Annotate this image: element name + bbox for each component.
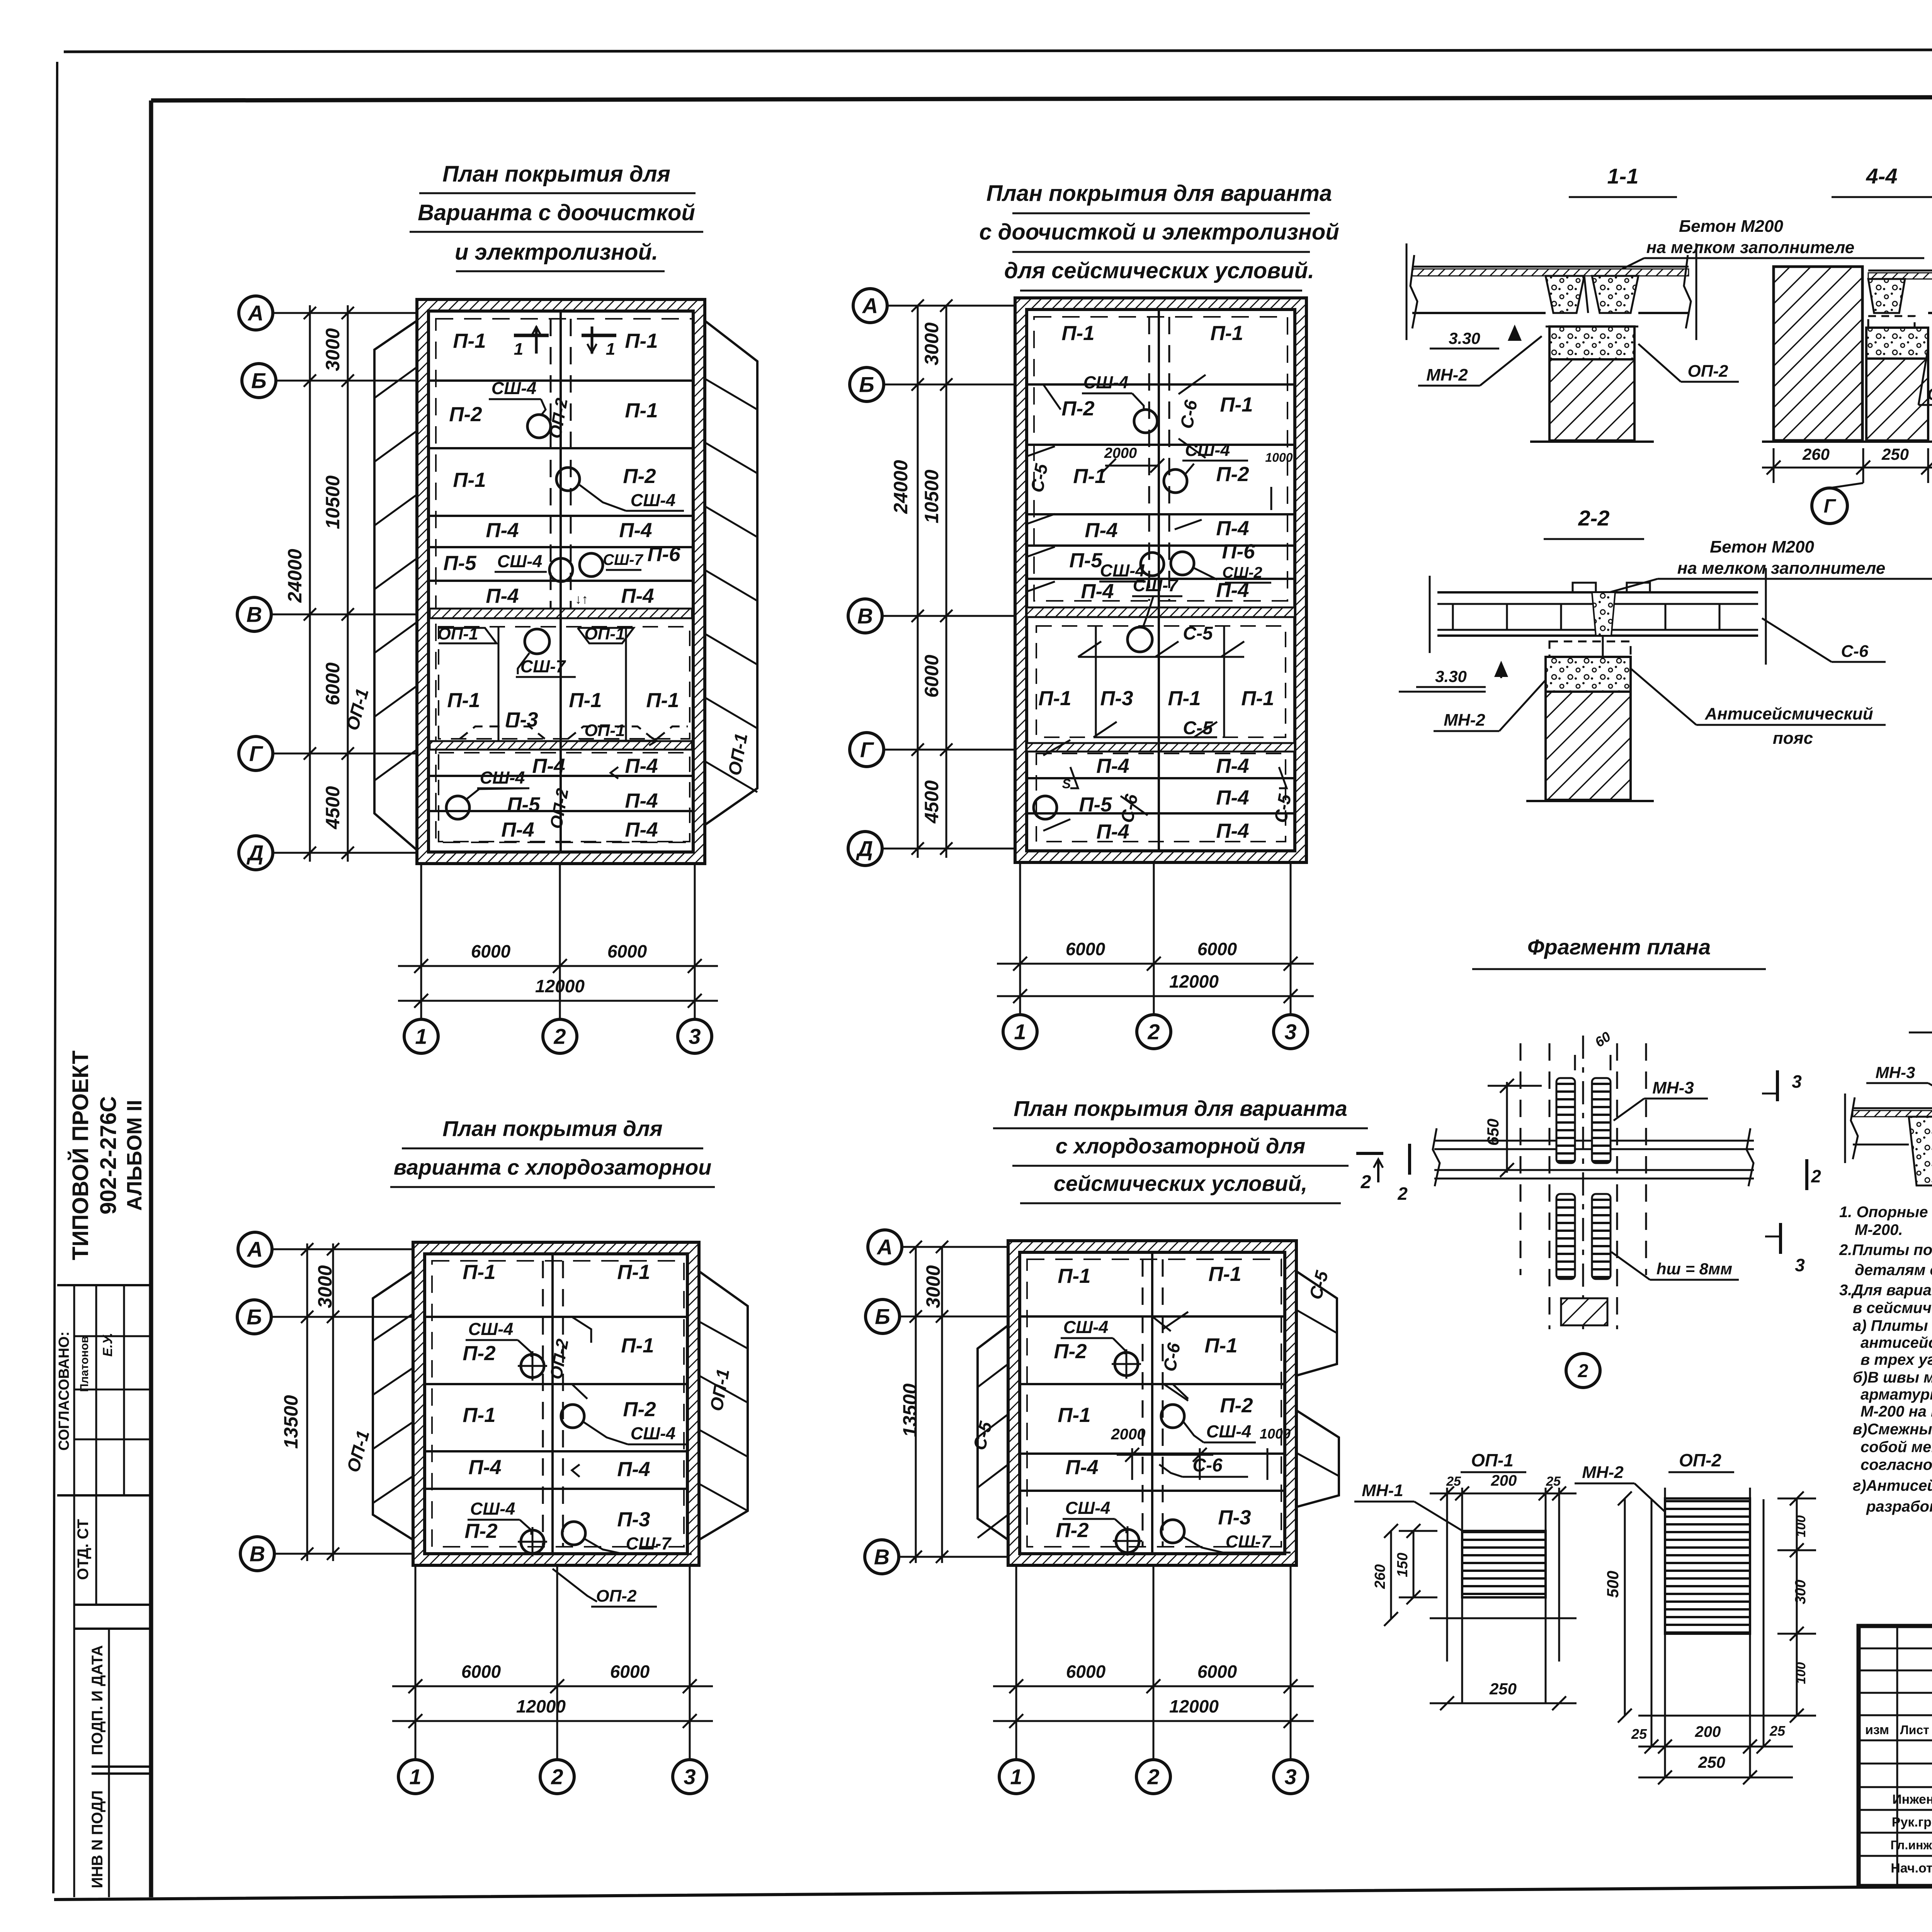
svg-text:200: 200 — [1491, 1472, 1517, 1489]
svg-text:П-1: П-1 — [1073, 465, 1106, 488]
svg-text:12000: 12000 — [1169, 1696, 1219, 1716]
axis А line — [900, 1246, 1008, 1248]
svg-text:собой металлическими накладкам: собой металлическими накладками, — [1861, 1439, 1932, 1456]
svg-text:СШ-4: СШ-4 — [1185, 440, 1230, 460]
plan 3 inner dashed outline — [432, 1261, 684, 1547]
title block outer frame — [1859, 1626, 1932, 1886]
svg-text:МН-2: МН-2 — [1582, 1463, 1624, 1482]
bottom dim line 12000 — [398, 1000, 718, 1002]
svg-text:с хлордозаторной для: с хлордозаторной для — [1056, 1134, 1306, 1158]
plan 1 band at axis V — [430, 609, 692, 618]
svg-text:300: 300 — [1793, 1580, 1809, 1604]
svg-text:на мелком заполнителе: на мелком заполнителе — [1677, 559, 1885, 578]
svg-text:П-3: П-3 — [617, 1508, 650, 1531]
svg-text:ИНВ N ПОДЛ: ИНВ N ПОДЛ — [89, 1790, 106, 1888]
svg-text:Бетон М200: Бетон М200 — [1679, 217, 1783, 236]
dimension ticks — [304, 307, 316, 319]
svg-text:П-1: П-1 — [463, 1261, 495, 1284]
section 2-2 support pad — [1546, 657, 1631, 692]
axis А circle — [238, 1232, 272, 1266]
plan 3 wall band — [413, 1242, 699, 1565]
svg-text:ОП-1: ОП-1 — [438, 624, 478, 643]
axis А line — [886, 305, 1015, 307]
plan 1 V-G cell verticals — [498, 626, 500, 741]
fragment vertical dashed plate edges — [1520, 1043, 1522, 1275]
axis Б circle — [850, 367, 884, 401]
svg-text:арматурные сетки и заделать бе: арматурные сетки и заделать бетоном — [1861, 1386, 1932, 1403]
svg-text:1: 1 — [1010, 1765, 1022, 1789]
section 4-4 support pad OP-1 — [1866, 328, 1928, 359]
section 3-3 joint ribs — [1909, 1117, 1932, 1185]
svg-text:С-6: С-6 — [1192, 1455, 1223, 1476]
section 4-4 wall — [1774, 267, 1862, 440]
svg-text:П-1: П-1 — [1038, 687, 1071, 710]
svg-text:П-1: П-1 — [625, 399, 658, 422]
axis 1 circle bottom — [999, 1760, 1033, 1794]
svg-text:3000: 3000 — [314, 1265, 336, 1308]
svg-text:П-1: П-1 — [646, 689, 679, 712]
svg-text:П-4: П-4 — [1216, 579, 1249, 602]
plan 1 dashed pad trapezoids — [460, 726, 545, 739]
fragment section marks 3 — [1776, 1070, 1779, 1101]
title block left section rows — [1859, 1648, 1932, 1650]
svg-text:А: А — [247, 301, 264, 325]
dimension ticks — [912, 299, 924, 312]
detail OP-2 plate block — [1665, 1498, 1750, 1634]
svg-text:П-4: П-4 — [1096, 755, 1129, 777]
svg-text:500: 500 — [1604, 1571, 1622, 1598]
svg-text:↓↑: ↓↑ — [575, 592, 588, 607]
svg-text:12000: 12000 — [516, 1696, 566, 1716]
svg-text:П-1: П-1 — [625, 330, 658, 352]
svg-text:3: 3 — [1284, 1020, 1296, 1044]
svg-text:6000: 6000 — [607, 941, 647, 961]
svg-text:П-4: П-4 — [501, 818, 534, 841]
svg-text:ТИПОВОЙ ПРОЕКТ: ТИПОВОЙ ПРОЕКТ — [68, 1051, 93, 1260]
svg-text:М-200 на мелком заполнителе.: М-200 на мелком заполнителе. — [1861, 1403, 1932, 1420]
svg-text:П-4: П-4 — [621, 585, 654, 607]
svg-text:П-4: П-4 — [1216, 517, 1249, 540]
svg-text:12000: 12000 — [1169, 971, 1219, 992]
svg-text:П-2: П-2 — [1061, 397, 1094, 420]
svg-text:6000: 6000 — [471, 941, 511, 961]
svg-text:2000: 2000 — [1104, 445, 1137, 461]
svg-text:Нач.отд: Нач.отд — [1891, 1861, 1932, 1876]
detail OP-1 bottom dim 250 — [1430, 1702, 1577, 1704]
svg-text:П-1: П-1 — [1061, 322, 1094, 345]
plan 1 center split line — [560, 312, 562, 851]
svg-text:П-3: П-3 — [1218, 1506, 1251, 1529]
svg-text:902-2-276С: 902-2-276С — [96, 1096, 121, 1214]
svg-text:2.Плиты покрытия приварить к з: 2.Плиты покрытия приварить к закладным — [1839, 1242, 1932, 1259]
svg-text:4500: 4500 — [921, 780, 942, 823]
fragment center axis vertical — [1582, 1036, 1584, 1329]
section 1-1 joint ribs — [1546, 276, 1584, 313]
svg-text:П-1: П-1 — [447, 689, 480, 712]
svg-text:П-2: П-2 — [623, 465, 656, 488]
plan 4 right flap lower — [1296, 1410, 1339, 1507]
svg-text:П-4: П-4 — [532, 755, 565, 777]
svg-text:12000: 12000 — [535, 976, 585, 996]
axis 3 circle bottom — [1274, 1760, 1308, 1794]
svg-text:А: А — [247, 1237, 263, 1262]
svg-text:250: 250 — [1489, 1680, 1517, 1698]
section 1-1 slab end breaks — [1410, 255, 1417, 328]
fragment section marks 2 — [1408, 1144, 1411, 1175]
axis 2 circle bottom — [540, 1760, 574, 1794]
svg-text:3: 3 — [1284, 1765, 1296, 1789]
plan 2 G-D dashed inner — [1036, 753, 1286, 842]
svg-text:260: 260 — [1372, 1564, 1388, 1589]
section 1-1 slab — [1412, 266, 1689, 268]
detail OP-1 left dims 150 260 — [1413, 1531, 1415, 1597]
svg-text:МН-3: МН-3 — [1652, 1078, 1694, 1097]
plan 1 row line B — [430, 379, 692, 382]
plan 4 center split — [1151, 1252, 1153, 1554]
axis В circle — [865, 1540, 899, 1574]
axis Б line — [882, 384, 1015, 386]
axis 1 circle bottom — [398, 1760, 432, 1794]
svg-text:П-4: П-4 — [1216, 786, 1249, 809]
svg-text:и электролизной.: и электролизной. — [455, 240, 658, 265]
plan 1 V-G dashed inner — [439, 627, 690, 739]
detail OP-1 base line — [1430, 1617, 1577, 1619]
axis Д line — [271, 852, 417, 854]
svg-text:СШ-4: СШ-4 — [1206, 1422, 1252, 1441]
svg-text:П-4: П-4 — [486, 519, 519, 542]
bottom column axis lines — [420, 864, 422, 1021]
title block left section verticals — [1896, 1626, 1898, 1886]
svg-text:Б: Б — [875, 1304, 890, 1329]
svg-text:П-4: П-4 — [1216, 755, 1249, 777]
section 4-4 axis circle G — [1812, 488, 1847, 524]
svg-text:План покрытия для варианта: План покрытия для варианта — [1014, 1096, 1347, 1121]
axis 1 circle bottom — [404, 1019, 438, 1053]
svg-text:В: В — [857, 604, 873, 628]
svg-text:25: 25 — [1769, 1723, 1786, 1739]
svg-text:г)Антисейсмические пояса: г)Антисейсмические пояса — [1853, 1477, 1932, 1494]
svg-text:25: 25 — [1631, 1726, 1647, 1742]
svg-text:13500: 13500 — [280, 1395, 302, 1449]
svg-text:Г: Г — [1824, 495, 1837, 517]
svg-text:П-2: П-2 — [463, 1342, 495, 1365]
svg-text:П-4: П-4 — [1065, 1456, 1098, 1479]
svg-text:СШ-4: СШ-4 — [492, 378, 537, 398]
svg-text:С-5: С-5 — [1183, 623, 1213, 644]
svg-text:СШ-4: СШ-4 — [468, 1319, 514, 1339]
svg-text:1: 1 — [1014, 1020, 1026, 1044]
axis 3 circle bottom — [678, 1019, 712, 1053]
main frame thick horizontal — [151, 96, 1932, 100]
svg-text:М-200.: М-200. — [1855, 1221, 1903, 1238]
plan 2 row line B — [1027, 383, 1295, 386]
svg-text:ПОДП. И ДАТА: ПОДП. И ДАТА — [89, 1645, 106, 1755]
svg-text:2: 2 — [1578, 1361, 1588, 1381]
svg-text:деталям опорных подушек.: деталям опорных подушек. — [1855, 1262, 1932, 1279]
axis Д line — [881, 848, 1015, 850]
svg-text:П-4: П-4 — [468, 1456, 501, 1479]
plan 1 inner dashed outline — [436, 319, 694, 842]
svg-text:П-1: П-1 — [1241, 687, 1274, 710]
svg-text:А: А — [876, 1235, 893, 1259]
plan 4 right flap S-5 top — [1296, 1271, 1337, 1376]
svg-text:Варианта с доочисткой: Варианта с доочисткой — [418, 200, 695, 225]
sheet outer border bottom — [54, 1885, 1932, 1900]
axis А line — [271, 312, 417, 314]
svg-text:ОП-1: ОП-1 — [1471, 1450, 1514, 1470]
svg-text:2: 2 — [1397, 1184, 1408, 1204]
svg-text:6000: 6000 — [921, 655, 942, 697]
svg-text:в сейсмических районах необход: в сейсмических районах необходимо: — [1853, 1299, 1932, 1316]
bottom dim line 6000/6000 — [993, 1685, 1314, 1687]
svg-text:4500: 4500 — [322, 786, 344, 829]
axis А line — [270, 1248, 413, 1250]
section 4-4 joint — [1868, 279, 1905, 313]
plan 1 wall band — [417, 299, 705, 864]
svg-text:Гл.инжр: Гл.инжр — [1891, 1838, 1932, 1852]
svg-text:А: А — [862, 294, 878, 318]
axis 1 circle bottom — [1003, 1015, 1037, 1049]
svg-text:П-4: П-4 — [625, 818, 658, 841]
svg-text:П-1: П-1 — [453, 469, 486, 492]
svg-text:П-4: П-4 — [625, 789, 658, 812]
svg-text:План покрытия для варианта: План покрытия для варианта — [986, 181, 1332, 206]
svg-text:2: 2 — [553, 1024, 566, 1049]
svg-text:Рук.гр.: Рук.гр. — [1892, 1815, 1932, 1830]
svg-text:П-2: П-2 — [1220, 1394, 1253, 1417]
detail OP-1 verticals — [1446, 1488, 1448, 1662]
section 2-2 column — [1546, 692, 1631, 800]
svg-text:2: 2 — [1147, 1765, 1159, 1789]
svg-text:ОТД. СТ: ОТД. СТ — [75, 1519, 92, 1580]
svg-text:Б: Б — [859, 372, 874, 397]
axis 2 circle bottom — [1137, 1015, 1171, 1049]
svg-text:П-1: П-1 — [1058, 1404, 1090, 1427]
plan 1 OP-1 trapezoid top right — [578, 628, 634, 643]
bottom dim line 12000 — [392, 1720, 713, 1722]
axis Б circle — [242, 364, 276, 398]
svg-text:П-1: П-1 — [1220, 393, 1253, 416]
sheet outer border left — [53, 62, 57, 1893]
svg-text:СШ-4: СШ-4 — [1083, 372, 1129, 392]
left margin small cells — [74, 1335, 151, 1337]
axis 2 circle bottom — [543, 1019, 577, 1053]
svg-text:П-2: П-2 — [464, 1520, 497, 1543]
section 2-2 joint fill — [1592, 592, 1615, 636]
fragment axis circle 2 — [1566, 1354, 1600, 1388]
bottom column axis lines — [1019, 862, 1021, 1016]
svg-text:СШ-7: СШ-7 — [520, 656, 566, 676]
axis 3 circle bottom — [1274, 1015, 1308, 1049]
svg-text:6000: 6000 — [1066, 939, 1105, 959]
plan 4 section mark 2 top right — [1356, 1152, 1383, 1155]
bottom dim line 6000/6000 — [392, 1685, 713, 1687]
axis Г circle — [239, 736, 273, 770]
section 4-4 pad dashed — [1868, 316, 1915, 328]
bottom dim line 12000 — [997, 995, 1314, 997]
section 4-4 column — [1866, 359, 1928, 440]
axis Б circle — [866, 1299, 900, 1333]
svg-text:ОП-2: ОП-2 — [1679, 1450, 1721, 1470]
plan 1 G-D dashed inner — [439, 753, 690, 842]
section 2-2 slab ends — [1429, 576, 1431, 653]
svg-text:100: 100 — [1794, 1662, 1808, 1684]
dimension ticks — [910, 1241, 922, 1253]
bottom column axis lines — [1015, 1565, 1017, 1761]
plan 1 row lines — [430, 447, 692, 449]
svg-text:6000: 6000 — [1197, 1662, 1237, 1682]
svg-text:пояс: пояс — [1773, 729, 1813, 748]
svg-text:Бетон М200: Бетон М200 — [1710, 537, 1814, 556]
dimension vertical lines — [917, 306, 919, 858]
svg-text:антисейсмических поясов, не ме: антисейсмических поясов, не менее чем — [1861, 1334, 1932, 1351]
svg-text:П-5: П-5 — [507, 793, 541, 816]
axis В circle — [848, 599, 882, 633]
svg-text:3: 3 — [1795, 1255, 1805, 1275]
svg-text:П-1: П-1 — [617, 1261, 650, 1284]
svg-text:ОП-1: ОП-1 — [1927, 385, 1932, 404]
svg-text:изм: изм — [1865, 1723, 1889, 1737]
svg-text:СШ-4: СШ-4 — [1065, 1498, 1111, 1518]
bottom dim line 6000/6000 — [997, 963, 1314, 965]
svg-text:ОП-2: ОП-2 — [596, 1587, 637, 1605]
bottom dim line 12000 — [993, 1720, 1314, 1722]
svg-text:П-4: П-4 — [625, 755, 658, 777]
svg-text:150: 150 — [1395, 1553, 1411, 1577]
svg-text:в)Смежные плиты соединить межд: в)Смежные плиты соединить между — [1853, 1421, 1932, 1438]
axis Б circle — [237, 1300, 271, 1334]
section 4-4 slab right — [1868, 270, 1932, 272]
plan 1 right flap OP-1 — [705, 321, 757, 825]
plan 2 band at axis V — [1027, 607, 1295, 617]
plan 4 inner dashed outline — [1027, 1259, 1281, 1547]
plan 2 center split — [1158, 310, 1160, 851]
svg-text:СШ-7: СШ-7 — [1226, 1532, 1272, 1551]
svg-text:10500: 10500 — [921, 469, 942, 523]
svg-text:25: 25 — [1446, 1474, 1461, 1489]
sheet outer border top — [64, 49, 1932, 52]
svg-text:260: 260 — [1802, 445, 1830, 463]
svg-text:Инжен.: Инжен. — [1892, 1792, 1932, 1807]
plan 3 right flap OP-1 — [699, 1271, 748, 1540]
svg-text:П-1: П-1 — [569, 689, 602, 712]
axis Г line — [882, 749, 1015, 751]
axis В line — [273, 1553, 413, 1555]
axis А circle — [853, 289, 887, 323]
svg-text:10500: 10500 — [322, 475, 344, 529]
svg-text:1-1: 1-1 — [1607, 164, 1639, 188]
svg-text:П-1: П-1 — [463, 1404, 495, 1427]
axis В line — [270, 614, 417, 616]
plan 3 center split — [551, 1254, 554, 1554]
svg-text:П-6: П-6 — [1222, 540, 1255, 563]
svg-text:СШ-7: СШ-7 — [626, 1534, 672, 1553]
left margin vertical lines — [73, 1285, 75, 1897]
svg-text:СШ-4: СШ-4 — [470, 1499, 515, 1519]
svg-text:Г: Г — [860, 738, 874, 762]
svg-text:П-2: П-2 — [623, 1398, 656, 1421]
plan 1 section mark 1-1 top — [514, 334, 549, 337]
svg-text:П-5: П-5 — [1079, 793, 1112, 816]
svg-text:1: 1 — [514, 340, 523, 359]
svg-text:П-1: П-1 — [1210, 322, 1243, 345]
plan 3 left flap OP-1 — [373, 1271, 413, 1540]
svg-text:в трех углах hшв = 8мм.: в трех углах hшв = 8мм. — [1861, 1351, 1932, 1368]
axis В line — [897, 1556, 1008, 1558]
axis А circle — [239, 296, 273, 330]
svg-text:для сейсмических условий.: для сейсмических условий. — [1004, 258, 1314, 283]
svg-text:250: 250 — [1881, 445, 1909, 463]
svg-text:П-1: П-1 — [1204, 1334, 1237, 1357]
svg-text:П-2: П-2 — [1054, 1340, 1087, 1363]
svg-text:П-4: П-4 — [1216, 820, 1249, 842]
svg-text:6000: 6000 — [610, 1662, 650, 1682]
axis В circle — [240, 1537, 274, 1571]
svg-text:ОП-2: ОП-2 — [1688, 362, 1729, 381]
svg-text:24000: 24000 — [284, 549, 306, 603]
axis Д circle — [848, 832, 882, 866]
svg-text:П-2: П-2 — [1216, 463, 1249, 486]
axis А circle — [868, 1230, 902, 1264]
main frame thick vertical — [149, 100, 153, 1897]
svg-text:3.30: 3.30 — [1449, 329, 1480, 347]
svg-text:СШ-7: СШ-7 — [1133, 575, 1179, 595]
svg-text:П-4: П-4 — [1081, 580, 1114, 603]
svg-text:П-2: П-2 — [1056, 1519, 1088, 1542]
plan 2 wall band — [1015, 298, 1306, 862]
svg-text:2: 2 — [1361, 1172, 1371, 1192]
bottom dim line 6000/6000 — [398, 965, 718, 967]
svg-text:1: 1 — [409, 1765, 421, 1789]
svg-text:В: В — [250, 1542, 265, 1566]
axis Г circle — [850, 733, 884, 767]
svg-text:3: 3 — [684, 1765, 696, 1789]
svg-text:6000: 6000 — [1197, 939, 1237, 959]
plan 3 row line B — [426, 1316, 688, 1318]
plan 3 OP-2 leader below — [553, 1569, 597, 1602]
svg-text:25: 25 — [1546, 1474, 1561, 1489]
dimension vertical lines — [915, 1247, 917, 1563]
svg-text:24000: 24000 — [890, 460, 912, 514]
svg-text:6000: 6000 — [1066, 1662, 1106, 1682]
svg-text:ОП-1: ОП-1 — [585, 624, 625, 643]
svg-text:В: В — [874, 1545, 889, 1569]
svg-text:СШ-4: СШ-4 — [631, 490, 676, 510]
svg-text:Г: Г — [249, 742, 264, 766]
svg-text:с доочисткой и электролизной: с доочисткой и электролизной — [979, 219, 1339, 245]
svg-text:П-4: П-4 — [619, 519, 652, 542]
svg-text:П-3: П-3 — [505, 708, 538, 731]
plan 2 V-G dashed inner — [1036, 626, 1286, 737]
svg-text:3000: 3000 — [921, 322, 942, 365]
svg-text:План покрытия для: План покрытия для — [442, 1116, 662, 1141]
fragment dim 650 — [1506, 1082, 1508, 1173]
svg-text:СШ-4: СШ-4 — [1063, 1317, 1109, 1337]
svg-text:Платонов: Платонов — [78, 1336, 91, 1392]
svg-text:3.Для вариантов зданий, распол: 3.Для вариантов зданий, расположенных — [1839, 1282, 1932, 1299]
svg-text:2: 2 — [551, 1765, 563, 1789]
detail OP-2 verticals — [1651, 1499, 1653, 1747]
svg-text:СШ-4: СШ-4 — [480, 768, 525, 787]
section 4-4 dims 260 250 — [1762, 467, 1932, 469]
plan 2 circle SSh-7 in V-G — [1128, 627, 1152, 652]
svg-text:МН-1: МН-1 — [1362, 1481, 1403, 1500]
svg-text:3.30: 3.30 — [1435, 667, 1467, 685]
svg-text:ОП-1: ОП-1 — [585, 721, 625, 740]
left margin divider lines — [57, 1284, 151, 1286]
axis Г line — [271, 753, 417, 755]
svg-text:2: 2 — [1811, 1166, 1821, 1186]
